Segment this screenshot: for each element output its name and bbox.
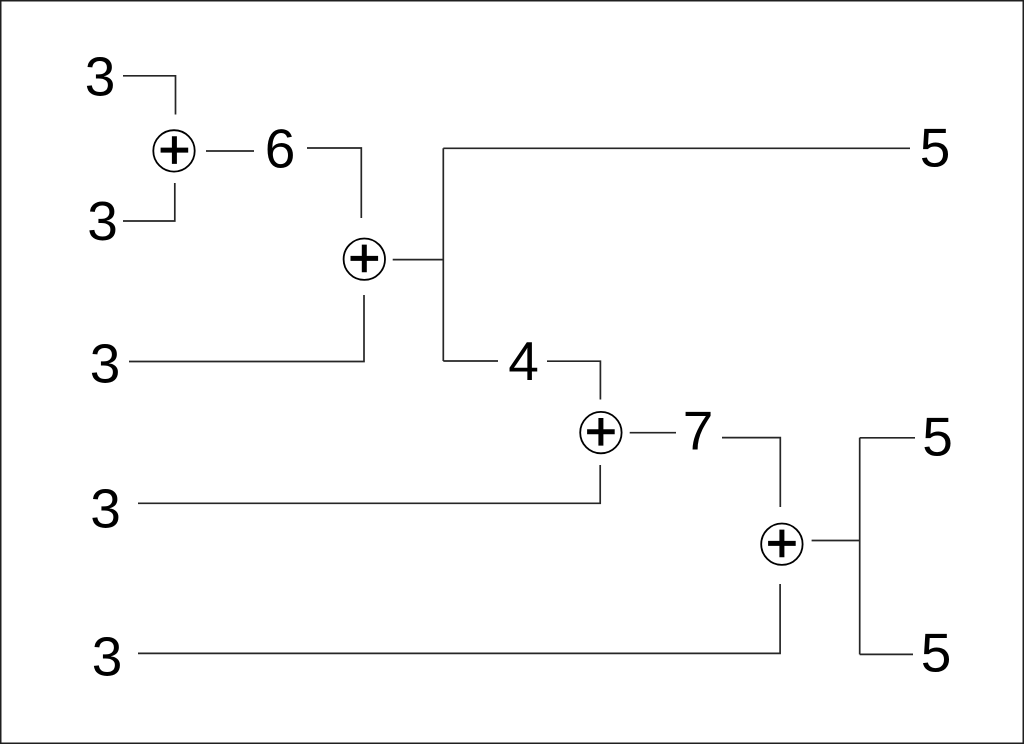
- wire node 4 to adder U3: [547, 361, 600, 399]
- svg-text:6: 6: [265, 118, 296, 180]
- svg-text:5: 5: [922, 406, 953, 468]
- adder U2 plus: [351, 245, 379, 273]
- wire from input 3b to adder U1: [123, 183, 175, 221]
- svg-text:3: 3: [92, 626, 123, 688]
- wire U4 output to right bus: [812, 540, 861, 542]
- wire U2 output to junction: [393, 259, 444, 261]
- wire from input 3c to adder U2: [129, 295, 364, 362]
- wire from input 3d to adder U3: [138, 465, 600, 503]
- svg-text:3: 3: [90, 478, 121, 540]
- svg-text:3: 3: [85, 46, 116, 108]
- svg-text:3: 3: [90, 333, 121, 395]
- adder U4 circle: [761, 524, 802, 565]
- wire U1 output to node 6: [206, 150, 254, 152]
- adder U3 plus: [587, 418, 615, 446]
- wire U3 output to node 7: [630, 432, 676, 434]
- adder U4 plus: [768, 530, 796, 558]
- wire from input 3e to adder U4: [138, 584, 780, 653]
- wire bus bottom to node 4: [443, 360, 498, 362]
- svg-text:5: 5: [921, 622, 952, 684]
- wire right bus bottom to output 5c: [860, 653, 913, 655]
- svg-text:7: 7: [683, 400, 714, 462]
- adder U1 circle: [153, 130, 194, 171]
- adder U1 plus: [161, 136, 189, 164]
- svg-text:5: 5: [920, 117, 951, 179]
- right vertical bus at x=859.7: [859, 438, 861, 655]
- wire node 6 to adder U2: [307, 148, 361, 218]
- adder U3 circle: [580, 412, 621, 453]
- svg-text:3: 3: [87, 190, 118, 252]
- wire bus top to output 5a: [443, 147, 910, 149]
- svg-text:4: 4: [508, 330, 539, 392]
- wire from input 3a to adder U1 (horizontal): [123, 76, 176, 115]
- wire node 7 to adder U4: [722, 438, 780, 507]
- adder U2 circle: [344, 239, 385, 280]
- long vertical bus at x=443: [442, 148, 444, 361]
- wire right bus top to output 5b: [860, 437, 915, 439]
